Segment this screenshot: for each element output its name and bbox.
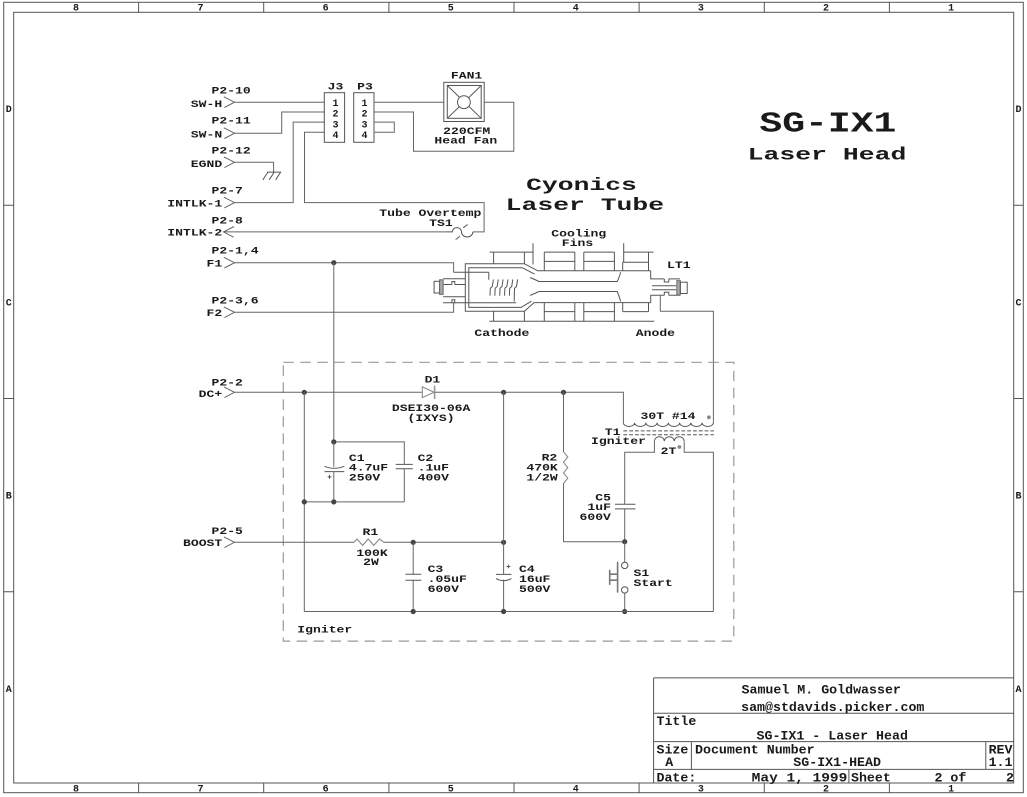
- svg-text:P2-5: P2-5: [212, 527, 243, 538]
- transformer T1: [591, 412, 714, 612]
- junction bottom rail left: [302, 499, 307, 504]
- svg-text:3: 3: [698, 4, 704, 15]
- border row labels right: [1015, 105, 1021, 696]
- svg-text:J3: J3: [328, 82, 344, 93]
- capacitor C3: [406, 542, 467, 611]
- ground symbol earth: [263, 172, 281, 180]
- junction C4 top: [501, 540, 506, 545]
- svg-text:2: 2: [1006, 771, 1014, 785]
- node P2-5 BOOST: [183, 527, 243, 550]
- svg-text:1.1: 1.1: [989, 756, 1013, 770]
- fan FAN1: [434, 71, 497, 147]
- wire FAN1 return to P3 pin 2: [374, 102, 514, 151]
- wire INTLK-1 to J3 pin 3: [235, 122, 325, 203]
- svg-text:Fins: Fins: [562, 238, 593, 250]
- node P2-12 EGND: [191, 147, 251, 171]
- switch S1 pushbutton: [610, 542, 673, 612]
- junction C5 R2 S1: [622, 539, 627, 544]
- svg-text:P2-11: P2-11: [212, 116, 251, 127]
- wire DC+ down to BOOST rail at C4: [503, 392, 505, 542]
- svg-text:1/2W: 1/2W: [526, 472, 557, 484]
- svg-text:Date:: Date:: [657, 771, 697, 785]
- capacitor C4: [496, 542, 550, 611]
- wire igniter bottom rail: [304, 611, 713, 613]
- border column ticks bottom: [139, 783, 890, 793]
- junction DC+ R2 branch: [561, 390, 566, 395]
- svg-text:Igniter: Igniter: [591, 436, 646, 448]
- svg-text:7: 7: [197, 784, 203, 795]
- svg-text:D: D: [6, 105, 12, 116]
- svg-text:A: A: [665, 756, 673, 770]
- node P2-1,4 F1: [207, 247, 259, 271]
- svg-text:1: 1: [948, 4, 954, 15]
- igniter dashed enclosure: [283, 362, 734, 641]
- border row ticks left: [4, 205, 14, 592]
- svg-text:A: A: [1015, 685, 1021, 696]
- laser tube LT1: [434, 228, 690, 339]
- svg-text:Cyonics: Cyonics: [526, 176, 637, 196]
- svg-text:DC+: DC+: [199, 390, 223, 401]
- connector J3: [324, 82, 344, 142]
- node P2-11 SW-N: [191, 116, 251, 141]
- wire C1 C2 bottom rail: [304, 501, 404, 503]
- svg-text:500V: 500V: [519, 585, 550, 596]
- wire BOOST to R1: [235, 541, 355, 543]
- svg-text:4: 4: [573, 784, 579, 795]
- svg-text:8: 8: [73, 784, 79, 795]
- wire TS1 to INTLK-2: [224, 231, 447, 233]
- svg-text:Title: Title: [657, 715, 697, 729]
- svg-text:30T #14: 30T #14: [641, 412, 696, 423]
- secondary right lead down: [684, 441, 713, 611]
- connector P3: [354, 82, 374, 142]
- node P2-7 INTLK-1: [167, 187, 243, 211]
- junction DC+ left rail: [302, 390, 307, 395]
- title block size/doc/rev headers: [657, 743, 1014, 757]
- svg-text:F1: F1: [207, 259, 223, 270]
- wire R1 to C4 junction: [384, 541, 504, 543]
- wire left rail down: [303, 392, 305, 611]
- thermal switch TS1: [379, 208, 481, 239]
- svg-text:2: 2: [332, 110, 338, 121]
- svg-text:Sheet: Sheet: [851, 771, 891, 785]
- resistor R1: [354, 528, 388, 569]
- title block date/sheet row: [657, 771, 1014, 785]
- junction DC+ C4 branch: [501, 390, 506, 395]
- wire D1 cathode to T1 primary: [435, 392, 624, 422]
- border row ticks right: [1014, 205, 1023, 592]
- svg-text:2: 2: [823, 784, 829, 795]
- svg-text:SG-IX1-HEAD: SG-IX1-HEAD: [793, 756, 881, 770]
- svg-text:P3: P3: [357, 82, 373, 93]
- svg-text:Samuel M. Goldwasser: Samuel M. Goldwasser: [742, 684, 901, 698]
- svg-text:B: B: [6, 492, 12, 503]
- svg-text:5: 5: [448, 784, 454, 795]
- svg-text:P2-8: P2-8: [212, 216, 243, 227]
- svg-text:P2-3,6: P2-3,6: [212, 296, 259, 307]
- junction C4 bottom: [501, 609, 506, 614]
- svg-text:P2-10: P2-10: [212, 87, 251, 98]
- svg-text:SW-N: SW-N: [191, 130, 222, 141]
- svg-text:SW-H: SW-H: [191, 100, 222, 111]
- svg-text:6: 6: [323, 784, 329, 795]
- title block size/doc/rev values: [665, 756, 1012, 770]
- svg-text:400V: 400V: [418, 474, 449, 485]
- svg-text:SG-IX1 - Laser Head: SG-IX1 - Laser Head: [757, 729, 908, 743]
- svg-text:TS1: TS1: [429, 219, 453, 230]
- svg-text:Laser Tube: Laser Tube: [506, 196, 664, 216]
- svg-text:Igniter: Igniter: [297, 625, 352, 637]
- svg-text:3: 3: [361, 120, 367, 131]
- border column ticks top: [139, 3, 890, 13]
- svg-text:May 1, 1999: May 1, 1999: [752, 771, 848, 785]
- svg-text:Start: Start: [634, 579, 673, 590]
- junction C3 bottom: [411, 609, 416, 614]
- svg-text:2 of: 2 of: [935, 771, 967, 785]
- svg-text:(IXYS): (IXYS): [408, 413, 455, 425]
- wire C1 C2 top rail: [334, 442, 405, 465]
- svg-text:F2: F2: [207, 309, 223, 320]
- svg-text:2: 2: [361, 110, 367, 121]
- svg-text:R1: R1: [363, 528, 379, 539]
- svg-text:3: 3: [332, 120, 338, 131]
- svg-text:2T: 2T: [661, 447, 677, 458]
- border column labels bottom: [73, 784, 954, 795]
- phasing dot secondary: [678, 445, 682, 449]
- wire J3 pin 4 to TS1: [305, 132, 485, 232]
- title block frame: [654, 678, 1014, 783]
- capacitor C2: [396, 454, 449, 502]
- wire F1 to tube cathode: [235, 263, 454, 273]
- svg-text:Cathode: Cathode: [474, 328, 529, 340]
- svg-text:P2-2: P2-2: [212, 379, 243, 390]
- svg-text:SG-IX1: SG-IX1: [759, 107, 896, 140]
- capacitor C5: [580, 494, 636, 542]
- border row labels left: [6, 105, 12, 696]
- svg-text:LT1: LT1: [667, 261, 691, 272]
- wire P3 pin 3 jumper to pin 4: [374, 122, 394, 132]
- junction C1 top: [331, 439, 336, 444]
- wire DC+ to D1 anode: [235, 391, 422, 393]
- svg-text:3: 3: [698, 784, 704, 795]
- svg-text:2: 2: [823, 4, 829, 15]
- node P2-3,6 F2: [207, 296, 259, 320]
- border column labels top: [73, 4, 954, 15]
- svg-text:A: A: [6, 685, 12, 696]
- svg-text:B: B: [1015, 492, 1021, 503]
- svg-text:1: 1: [948, 784, 954, 795]
- secondary left lead to C5: [625, 441, 655, 504]
- svg-text:6: 6: [323, 4, 329, 15]
- svg-text:Head Fan: Head Fan: [434, 135, 497, 147]
- diode D1: [392, 376, 471, 426]
- svg-text:1: 1: [361, 99, 367, 110]
- svg-text:4: 4: [332, 131, 338, 142]
- svg-text:Laser Head: Laser Head: [748, 145, 907, 165]
- junction S1 bottom: [622, 609, 627, 614]
- svg-text:FAN1: FAN1: [451, 71, 482, 82]
- svg-text:5: 5: [448, 4, 454, 15]
- svg-text:BOOST: BOOST: [183, 539, 222, 550]
- node P2-8 INTLK-2: [167, 216, 243, 239]
- junction C1 bottom: [331, 499, 336, 504]
- svg-text:D: D: [1015, 105, 1021, 116]
- svg-text:C: C: [6, 299, 12, 310]
- svg-text:D1: D1: [425, 376, 441, 387]
- wire P3 pin 1 to FAN1: [374, 101, 444, 103]
- svg-text:4: 4: [573, 4, 579, 15]
- junction C3 top: [411, 540, 416, 545]
- wire F2 to tube cathode: [235, 303, 454, 313]
- core lines: [623, 431, 714, 435]
- wire F1 branch down to C1: [333, 263, 335, 442]
- svg-text:600V: 600V: [580, 513, 611, 524]
- node P2-2 DC+: [199, 379, 243, 401]
- wire EGND to ground: [235, 162, 274, 172]
- svg-text:sam@stdavids.picker.com: sam@stdavids.picker.com: [741, 701, 925, 715]
- svg-text:7: 7: [197, 4, 203, 15]
- svg-text:1: 1: [332, 99, 338, 110]
- svg-text:INTLK-2: INTLK-2: [167, 229, 222, 240]
- wire SW-N to J3 pin 2: [235, 112, 325, 133]
- svg-text:600V: 600V: [428, 585, 459, 596]
- capacitor C1: [325, 442, 389, 502]
- svg-text:Anode: Anode: [636, 328, 675, 340]
- junction F1 branch: [331, 260, 336, 265]
- phasing dot primary: [707, 415, 711, 419]
- svg-text:EGND: EGND: [191, 160, 222, 171]
- svg-text:P2-12: P2-12: [212, 147, 251, 158]
- svg-text:INTLK-1: INTLK-1: [167, 199, 222, 210]
- wire tube anode down to T1 primary: [660, 295, 713, 422]
- svg-text:2W: 2W: [363, 558, 379, 569]
- svg-text:4: 4: [361, 131, 367, 142]
- node P2-10 SW-H: [191, 87, 251, 111]
- svg-text:250V: 250V: [349, 474, 380, 485]
- svg-text:P2-1,4: P2-1,4: [212, 247, 259, 258]
- svg-text:C: C: [1015, 299, 1021, 310]
- svg-text:8: 8: [73, 4, 79, 15]
- svg-text:P2-7: P2-7: [212, 187, 243, 198]
- wire SW-H to J3 pin 1: [235, 101, 325, 103]
- resistor R2: [526, 392, 624, 541]
